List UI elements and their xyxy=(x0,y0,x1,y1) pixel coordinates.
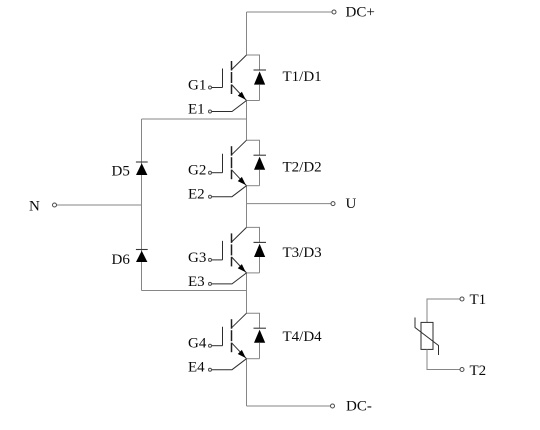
terminal G3 xyxy=(209,258,223,261)
svg-text:T2: T2 xyxy=(470,363,487,379)
svg-text:G2: G2 xyxy=(188,163,206,179)
wire DC+ rail xyxy=(247,11,333,13)
diode D6 xyxy=(136,250,148,263)
transistor T1 (IGBT) xyxy=(223,55,247,101)
svg-text:E2: E2 xyxy=(188,187,205,203)
terminal U xyxy=(331,202,335,206)
svg-text:T1/D1: T1/D1 xyxy=(283,69,322,85)
terminal T2 xyxy=(460,368,464,372)
transistor T4 (IGBT) xyxy=(223,313,247,359)
terminal T1 xyxy=(460,297,464,301)
terminal E3 xyxy=(209,273,247,286)
diode D1 (freewheel) xyxy=(247,55,267,101)
svg-text:E1: E1 xyxy=(188,102,205,118)
svg-text:U: U xyxy=(346,196,357,212)
diode D5 xyxy=(136,162,148,175)
wire bus T3 emitter to T4 collector xyxy=(246,273,248,314)
svg-text:G1: G1 xyxy=(188,78,206,94)
svg-text:T1: T1 xyxy=(470,292,487,308)
svg-text:DC-: DC- xyxy=(346,399,372,415)
wire thermistor T2 lead xyxy=(427,349,460,369)
terminal G1 xyxy=(209,86,223,89)
wire bus T2 emitter to T3 collector xyxy=(246,186,248,228)
wire E1 node to clamp bus xyxy=(142,118,247,120)
svg-text:N: N xyxy=(29,199,40,215)
svg-text:G3: G3 xyxy=(188,250,206,266)
diode D2 (freewheel) xyxy=(247,140,267,186)
terminal DC+ xyxy=(332,10,336,14)
terminal G2 xyxy=(209,171,223,174)
thermistor RT1 xyxy=(415,318,439,356)
svg-text:T3/D3: T3/D3 xyxy=(283,245,322,261)
svg-text:DC+: DC+ xyxy=(346,5,375,21)
diode D3 (freewheel) xyxy=(247,227,267,273)
terminal G4 xyxy=(209,344,223,347)
wire U output xyxy=(247,203,332,205)
wire E3 node to clamp bus xyxy=(142,290,247,292)
terminal N xyxy=(53,203,57,207)
wire N input xyxy=(57,204,142,206)
terminal E1 xyxy=(209,101,247,114)
svg-text:E3: E3 xyxy=(188,274,205,290)
wire main bus top (DC+ to T1 collector) xyxy=(246,12,248,55)
transistor T3 (IGBT) xyxy=(223,227,247,273)
svg-text:D6: D6 xyxy=(112,252,131,268)
terminal DC- xyxy=(331,404,335,408)
svg-text:E4: E4 xyxy=(188,360,205,376)
svg-text:G4: G4 xyxy=(188,336,207,352)
transistor T2 (IGBT) xyxy=(223,140,247,186)
wire clamp bus vertical xyxy=(141,119,143,291)
svg-text:D5: D5 xyxy=(112,164,130,180)
svg-text:T4/D4: T4/D4 xyxy=(283,329,323,345)
wire thermistor T1 lead xyxy=(427,299,460,322)
terminal E2 xyxy=(209,186,247,199)
terminal E4 xyxy=(209,359,247,372)
wire bus T1 emitter to T2 collector xyxy=(246,101,248,141)
svg-text:T2/D2: T2/D2 xyxy=(283,159,322,175)
wire bus T4 emitter to DC- xyxy=(246,359,248,407)
wire DC- rail xyxy=(247,405,331,407)
diode D4 (freewheel) xyxy=(247,313,267,359)
